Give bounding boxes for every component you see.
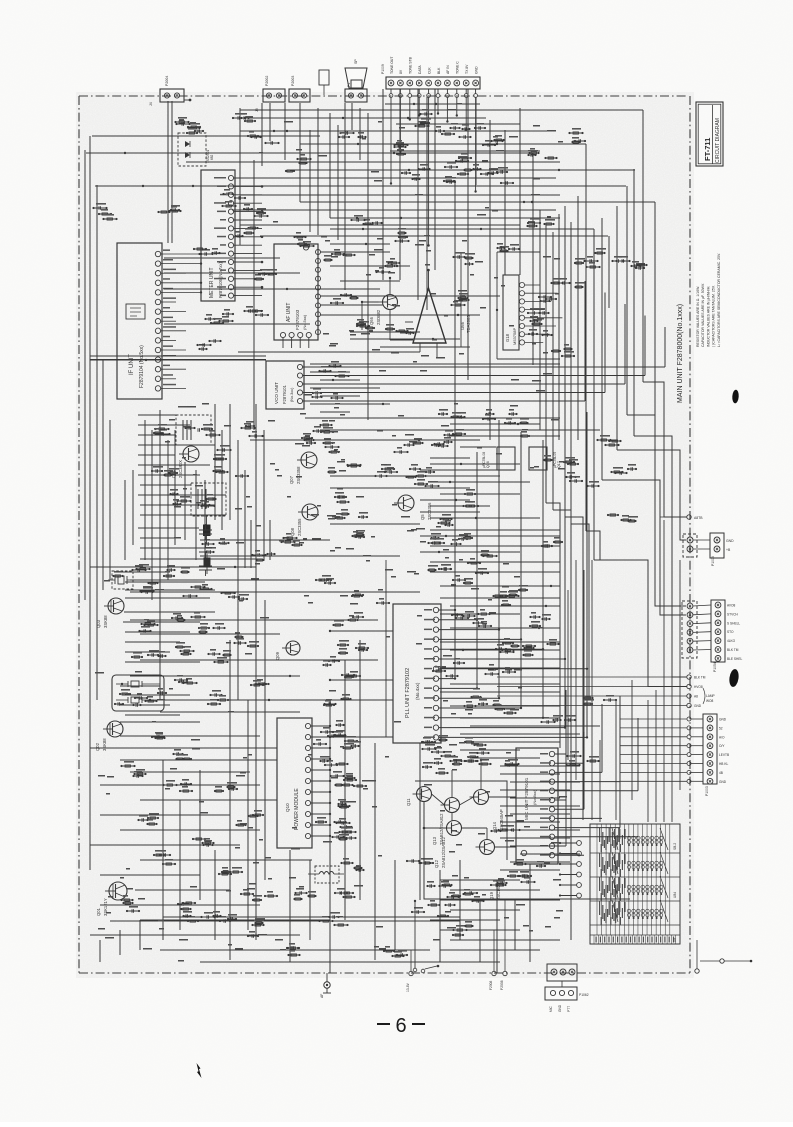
terminals BLK TM / HVO8 / A8 / GND xyxy=(497,675,715,708)
wire mid horizontal runs xyxy=(90,243,600,712)
crystal X01 (dashed box) xyxy=(108,571,136,589)
capacitor C62 electrolytic xyxy=(204,550,211,574)
wire bus right band B verticals xyxy=(594,110,687,687)
wire left verticals xyxy=(85,136,270,940)
transistor Q09 xyxy=(275,641,300,660)
capacitor bank C stack xyxy=(199,524,212,576)
wire lower right mesh xyxy=(430,520,680,950)
terminal AF ground xyxy=(320,973,331,998)
transistor Q04 2SC380 xyxy=(171,446,199,478)
wire bus top horizontal runs xyxy=(86,103,655,236)
unit box AF UNIT F2879103 xyxy=(274,244,321,348)
transistor Q01 3SK121Y xyxy=(96,882,127,916)
unit box METER UNIT F2879105 xyxy=(201,170,263,301)
speaker SP01 xyxy=(319,59,367,95)
transistor Q66 2SD882 xyxy=(369,295,398,326)
terminal 12.8V on bottom border xyxy=(406,950,413,992)
crystal filter XF01 xyxy=(112,675,164,711)
connector J2001 strip (10 pin) xyxy=(381,56,480,89)
connector P2004 xyxy=(149,76,191,106)
transformer T02 (dashed) xyxy=(191,474,226,516)
title block FT-711 CIRCUIT DIAGRAM xyxy=(696,102,723,166)
connector P1062 (3 pin) xyxy=(545,964,589,1012)
wire POWER MODULE pin stubs xyxy=(311,725,332,837)
transistor Q11 xyxy=(406,787,432,807)
wire Q66 leads xyxy=(361,277,413,340)
wire riser to border near P2008 xyxy=(413,900,417,972)
transistor Q08 2SC3355 xyxy=(290,504,318,536)
wire lower mid mesh xyxy=(90,600,530,973)
wire P1004-P1054 links xyxy=(693,605,711,650)
filter block inside IF unit xyxy=(126,304,145,319)
wire PLL left pin stubs xyxy=(329,560,393,738)
IC G18 M53758P xyxy=(503,275,562,350)
transistor Q05 2SC3358 xyxy=(394,495,432,520)
connector P2002 xyxy=(255,76,285,112)
connector P1 (speaker) xyxy=(345,83,367,102)
wire VCO to right bus xyxy=(303,281,665,401)
IC Q16 uPC78L08 xyxy=(482,447,515,470)
component clusters xyxy=(92,109,647,957)
transistor Q14 2SC945AP xyxy=(470,790,505,831)
connector P1054 (7 pin) xyxy=(711,600,742,672)
connector pins left of diode table xyxy=(559,841,581,898)
label MAIN UNIT F2878000 xyxy=(677,304,684,403)
notes text xyxy=(696,253,721,347)
wire bus top verticals xyxy=(168,101,368,430)
wire bus right band A verticals xyxy=(533,144,600,940)
page number 6 xyxy=(377,1015,425,1037)
wire MIC unit runs with risers xyxy=(555,690,638,855)
amplifier G66 TDA2003 (triangle) xyxy=(400,269,471,357)
stray mark bottom left xyxy=(197,1063,202,1078)
connector P1005 (2 pin, on border) xyxy=(683,534,710,557)
scattered value labels xyxy=(95,103,567,962)
IC Q17 uPC78L05 xyxy=(529,447,561,470)
terminal stub near 12.8V xyxy=(421,965,439,973)
unit box MIC UNIT F2879101 xyxy=(516,748,558,864)
connector P2008 terminals on bottom border xyxy=(489,900,507,990)
transistor Q03 3SK88 xyxy=(96,598,124,628)
wire bus double horizontals xyxy=(90,356,460,921)
unit box IF UNIT F2879104 xyxy=(117,243,162,399)
ink blot xyxy=(728,668,739,687)
wire top connector drops xyxy=(389,89,477,247)
connector P1004 group (7 pin) xyxy=(682,601,697,658)
transistor Q12 2SA812 xyxy=(434,821,462,869)
border frame (dash-dot) xyxy=(79,96,690,973)
connector P2003 xyxy=(289,76,310,102)
IF transformer core (solid) xyxy=(203,516,211,544)
connector P1003 (8 pin) xyxy=(687,714,729,796)
terminal A8TB xyxy=(660,515,703,520)
connector P1008 (2 pin) xyxy=(710,533,734,566)
terminal bottom right corner xyxy=(695,940,753,973)
component cluster below meter unit xyxy=(204,309,234,324)
wire bus mid verticals xyxy=(345,89,520,440)
unit box POWER MODULE Q10 xyxy=(277,718,312,848)
inductor L20 (dashed box) xyxy=(308,866,344,883)
transistor Q02 3SK88 xyxy=(95,721,123,751)
unit box VCO UNIT F2879101 xyxy=(266,361,304,409)
diode block cluster (dashed) xyxy=(178,133,214,166)
scan noise overlay xyxy=(0,0,1,1)
unit box PLL UNIT F2879102 xyxy=(393,604,441,743)
transistor Q07 2SC3358 xyxy=(289,452,317,484)
transformer T01 (dashed) xyxy=(176,406,211,445)
wire G18 loop xyxy=(461,252,560,359)
wire right terminal feeds xyxy=(620,719,687,781)
wire left horizontal runs xyxy=(115,415,226,722)
wire IF unit pin stubs xyxy=(161,249,203,388)
ink blot upper right xyxy=(732,389,739,403)
wire PLL right runs with risers xyxy=(439,412,589,739)
transistor Q13 2SA812 xyxy=(432,798,460,846)
diode matrix table D01-D64 xyxy=(590,824,680,944)
wire Q11-Q19 cluster interconnects xyxy=(415,759,630,899)
transistor Q19 2SC1623 xyxy=(476,840,502,901)
